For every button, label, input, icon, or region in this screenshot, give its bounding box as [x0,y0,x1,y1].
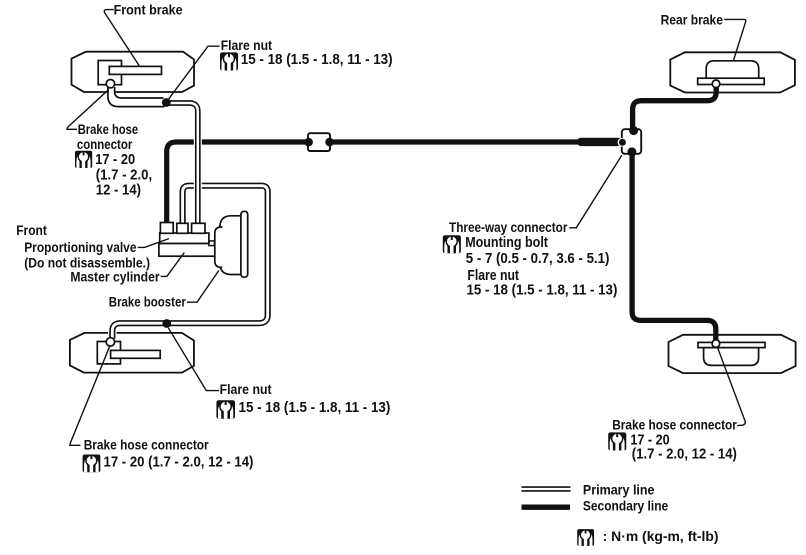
svg-text:(Do not disassemble.): (Do not disassemble.) [24,256,150,271]
svg-text:17 - 20 (1.7 - 2.0, 12 - 14): 17 - 20 (1.7 - 2.0, 12 - 14) [104,453,254,470]
front brake left (bottom) pad bar [111,350,161,358]
rear brake right (top) drum [706,61,759,79]
brake hose connector circle bottom-right [712,340,720,348]
torque icon: flare nut bottom-left [216,400,235,419]
torque icon: brake hose connector bottom-left [83,455,101,473]
primary line: flare nut to proportioning valve (white casing over secondary line) [168,103,198,224]
leader: flare nut bottom-left [168,328,219,391]
svg-text:15 - 18 (1.5 - 1.8, 11 - 13): 15 - 18 (1.5 - 1.8, 11 - 13) [239,399,391,416]
primary line: proportioning valve loop to bottom-left front brake (white casing) [112,186,267,339]
rear brake right (top) octagon body [670,52,795,92]
leader: master cylinder [161,253,185,277]
svg-text:: N·m (kg-m, ft-lb): : N·m (kg-m, ft-lb) [603,529,719,544]
rear brake right (bottom) octagon body [669,335,796,373]
legend: primary line sample [522,486,571,491]
svg-text:Primary line: Primary line [583,482,655,497]
secondary line: master cylinder to right (thick) [167,142,618,223]
master cylinder step [209,241,215,246]
svg-text:Front: Front [16,223,47,238]
proportioning valve body [160,233,209,243]
rear brake right (bottom) backing bar [698,342,765,347]
svg-text:12 - 14): 12 - 14) [96,182,141,199]
legend: secondary line sample [522,505,571,510]
secondary line: three-way connector down to bottom rear brake [632,151,716,342]
master cylinder body [159,243,217,256]
secondary line sleeve near three-way connector [577,138,623,146]
front brake left (top) pad bar [109,66,161,74]
svg-text:Proportioning valve: Proportioning valve [24,240,137,255]
three-way connector bottom nipple [627,147,636,156]
mid connector left nipple [304,138,313,147]
rear brake right (bottom) drum [704,348,759,366]
svg-text:Brake hose connector: Brake hose connector [612,417,737,432]
leader: flare nut top-left [167,46,219,101]
leader: proportioning valve [138,239,169,248]
svg-text:Brake booster: Brake booster [109,295,187,310]
brake hose connector circle top-left [106,80,114,88]
svg-text:connector: connector [77,137,133,152]
brake hose top-left: outer edge [108,87,165,107]
front brake left (top) octagon body [72,52,195,92]
brake hose connector circle top-right [712,80,720,88]
mid connector body [308,133,330,151]
three-way connector top nipple [629,126,638,135]
valve fitting cap 1 [160,223,173,234]
svg-text:Rear brake: Rear brake [661,13,724,28]
torque icon: flare nut top-left [220,52,238,70]
front brake left (top) caliper rect [98,61,121,85]
three-way connector left nipple with ring [618,138,627,147]
svg-text:(1.7 - 2.0, 12 - 14): (1.7 - 2.0, 12 - 14) [632,446,737,463]
svg-text:Three-way connector: Three-way connector [449,220,568,235]
svg-text:Secondary line: Secondary line [583,498,669,513]
valve fitting cap 2 [177,223,188,233]
front brake left (bottom) caliper rect [97,342,120,364]
torque icon: brake hose connector top-left [75,151,92,168]
leader: three-way connector [569,155,622,228]
brake booster rear rim [241,211,248,277]
brake booster drum [220,216,243,275]
svg-text:15 - 18 (1.5 - 1.8, 11 - 13): 15 - 18 (1.5 - 1.8, 11 - 13) [467,281,618,298]
svg-text:5 - 7 (0.5 - 0.7, 3.6 - 5.1): 5 - 7 (0.5 - 0.7, 3.6 - 5.1) [466,250,610,267]
svg-text:Master cylinder: Master cylinder [70,270,160,285]
leader: front brake label [104,10,139,67]
brake booster hub [215,227,223,267]
brake hose connector circle bottom-left [106,338,114,346]
mid connector right nipple [325,138,334,147]
leader: brake hose connector bottom-left [70,346,110,445]
svg-text:Flare nut: Flare nut [220,382,272,397]
flare nut dot (bottom-left) [162,319,171,328]
leader: rear brake [724,19,746,61]
brake hose top-left: inner edge [115,87,164,98]
flare nut dot (top-left) [162,98,171,107]
svg-text:Brake hose: Brake hose [78,122,139,137]
leader: brake hose connector bottom-right [717,347,745,426]
brake hose top-left: white interior [109,87,164,106]
rear brake right (top) backing bar [698,78,765,84]
torque icon: mounting bolt three-way [443,235,461,253]
leader: brake hose connector top-left [67,89,109,129]
three-way connector body [622,129,641,154]
leader: brake booster [187,271,219,303]
front brake left (bottom) octagon body [70,333,194,373]
svg-text:Mounting bolt: Mounting bolt [465,234,548,251]
secondary line: three-way connector up to top rear brake [633,85,717,132]
torque icon: brake hose connector bottom-right [608,432,626,450]
svg-text:Brake hose connector: Brake hose connector [84,437,210,452]
valve fitting cap 3 [192,223,205,233]
svg-text:15 - 18 (1.5 - 1.8, 11 - 13): 15 - 18 (1.5 - 1.8, 11 - 13) [241,51,393,68]
torque icon: legend [577,529,594,546]
svg-text:Front brake: Front brake [114,2,183,17]
